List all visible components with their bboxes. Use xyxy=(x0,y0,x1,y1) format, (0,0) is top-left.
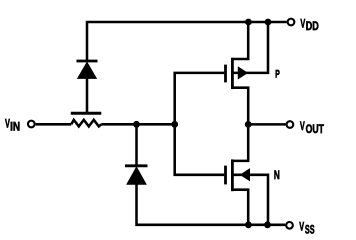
node junction dot output xyxy=(245,121,252,128)
node junction dot input at D2 xyxy=(133,121,140,128)
resistor R1 xyxy=(71,120,101,127)
node junction dot bottom rail body column xyxy=(264,221,271,228)
wire diode D2 cathode lead xyxy=(135,124,138,165)
svg-text:P: P xyxy=(275,69,280,81)
P-MOSFET body arrow xyxy=(238,67,247,78)
wire VIN to resistor xyxy=(36,123,72,126)
P-MOSFET Q1 gate bar xyxy=(224,65,227,83)
diode D1 cathode bar xyxy=(77,60,98,63)
svg-text:DD: DD xyxy=(306,21,319,33)
diode D1 triangle xyxy=(78,62,97,78)
P-MOSFET channel bar xyxy=(231,58,234,89)
svg-text:V: V xyxy=(300,18,305,30)
terminal VDD circle xyxy=(288,19,295,26)
P-MOSFET drain stub to output xyxy=(233,88,248,125)
terminal VIN circle xyxy=(28,121,35,128)
svg-text:OUT: OUT xyxy=(306,124,324,136)
svg-text:N: N xyxy=(274,170,280,182)
terminal VSS circle xyxy=(286,222,293,229)
wire D2 anode to VSS rail xyxy=(137,184,286,225)
N-MOSFET source stub to VSS xyxy=(233,190,248,225)
N-MOSFET body arrow xyxy=(241,169,250,180)
wire top rail VDD xyxy=(87,22,287,61)
node junction dot input at gate column xyxy=(171,121,178,128)
N-MOSFET body wire to VSS xyxy=(233,175,268,225)
node junction dot top rail body column xyxy=(265,19,272,26)
svg-text:V: V xyxy=(299,222,304,234)
svg-text:V: V xyxy=(300,121,305,133)
node junction dot top rail drain column xyxy=(245,19,252,26)
wire gate column and gates xyxy=(175,73,225,175)
N-MOSFET Q2 gate bar xyxy=(224,166,227,185)
node junction dot bottom rail drain column xyxy=(245,221,252,228)
N-MOSFET drain stub to output xyxy=(233,124,248,160)
diode D2 cathode bar xyxy=(125,164,148,167)
P-MOSFET body wire to VDD xyxy=(233,22,268,73)
N-MOSFET channel bar xyxy=(231,159,234,191)
diode D1 distributed anode bar xyxy=(71,112,102,115)
wire D1 anode lead xyxy=(86,78,89,112)
diode D2 triangle xyxy=(127,167,146,184)
wire resistor to gate node xyxy=(101,123,174,126)
terminal VOUT circle xyxy=(287,121,294,128)
P-MOSFET source stub to VDD xyxy=(233,22,248,59)
svg-text:IN: IN xyxy=(10,122,20,134)
svg-text:SS: SS xyxy=(305,225,315,237)
wire output to VOUT terminal xyxy=(248,123,285,126)
